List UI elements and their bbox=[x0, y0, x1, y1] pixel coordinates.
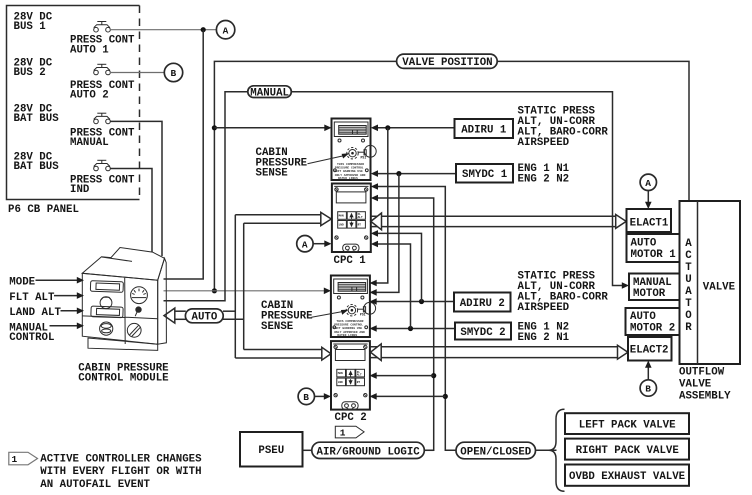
svg-text:A: A bbox=[685, 238, 692, 250]
svg-text:U: U bbox=[685, 274, 691, 286]
svg-text:BAT BUS: BAT BUS bbox=[14, 161, 60, 173]
svg-text:RIGHT PACK VALVE: RIGHT PACK VALVE bbox=[576, 445, 680, 457]
svg-text:MANUAL: MANUAL bbox=[250, 88, 289, 100]
svg-text:MODE: MODE bbox=[9, 276, 35, 288]
svg-text:AN AUTOFAIL EVENT: AN AUTOFAIL EVENT bbox=[40, 479, 150, 491]
svg-text:AIR/GROUND LOGIC: AIR/GROUND LOGIC bbox=[317, 446, 421, 458]
svg-text:ENG 2 N2: ENG 2 N2 bbox=[518, 173, 570, 185]
svg-text:ENG 2 N1: ENG 2 N1 bbox=[518, 332, 570, 344]
svg-text:ADIRU 2: ADIRU 2 bbox=[460, 298, 505, 310]
svg-text:MANUAL: MANUAL bbox=[70, 137, 109, 149]
svg-text:AUTO 1: AUTO 1 bbox=[70, 44, 109, 56]
svg-text:FLT ALT: FLT ALT bbox=[9, 292, 55, 304]
svg-text:AUTO 2: AUTO 2 bbox=[70, 90, 109, 102]
svg-text:A: A bbox=[302, 239, 308, 250]
svg-text:A: A bbox=[223, 25, 229, 36]
svg-text:LAND ALT: LAND ALT bbox=[9, 307, 61, 319]
svg-text:ADIRU 1: ADIRU 1 bbox=[461, 124, 506, 136]
svg-text:OUTFLOW: OUTFLOW bbox=[679, 367, 725, 379]
svg-text:CPC 1: CPC 1 bbox=[334, 255, 366, 267]
svg-text:O: O bbox=[685, 310, 692, 322]
svg-text:ACTIVE CONTROLLER CHANGES: ACTIVE CONTROLLER CHANGES bbox=[40, 454, 202, 466]
svg-text:C: C bbox=[685, 250, 692, 262]
svg-text:MANUAL: MANUAL bbox=[633, 277, 672, 289]
svg-text:IND: IND bbox=[70, 184, 90, 196]
svg-text:AUTO: AUTO bbox=[630, 311, 656, 323]
svg-text:B: B bbox=[303, 392, 309, 403]
svg-text:CONTROL MODULE: CONTROL MODULE bbox=[78, 373, 169, 385]
svg-text:VALVE POSITION: VALVE POSITION bbox=[402, 57, 492, 69]
svg-text:AIRSPEED: AIRSPEED bbox=[518, 137, 570, 149]
svg-text:CONTROL: CONTROL bbox=[9, 332, 54, 344]
svg-text:A: A bbox=[685, 286, 692, 298]
svg-text:CPC 2: CPC 2 bbox=[335, 412, 367, 424]
svg-text:B: B bbox=[171, 68, 177, 79]
svg-text:BUS 2: BUS 2 bbox=[14, 67, 46, 79]
svg-text:SMYDC 1: SMYDC 1 bbox=[462, 169, 507, 181]
svg-text:R: R bbox=[685, 322, 692, 334]
svg-text:A: A bbox=[645, 178, 651, 189]
svg-text:VALVE: VALVE bbox=[703, 281, 736, 293]
svg-text:OVBD EXHAUST VALVE: OVBD EXHAUST VALVE bbox=[569, 471, 686, 483]
svg-text:BAT BUS: BAT BUS bbox=[14, 113, 60, 125]
svg-text:BUS 1: BUS 1 bbox=[14, 21, 46, 33]
svg-text:OPEN/CLOSED: OPEN/CLOSED bbox=[460, 446, 532, 458]
svg-text:MOTOR 1: MOTOR 1 bbox=[631, 249, 676, 261]
svg-text:LEFT PACK VALVE: LEFT PACK VALVE bbox=[579, 420, 676, 432]
svg-text:T: T bbox=[685, 262, 692, 274]
svg-text:B: B bbox=[645, 384, 651, 395]
svg-text:AUTO: AUTO bbox=[631, 238, 657, 250]
svg-text:VALVE: VALVE bbox=[679, 379, 712, 391]
svg-text:MOTOR 2: MOTOR 2 bbox=[630, 323, 675, 335]
svg-text:ELACT2: ELACT2 bbox=[630, 345, 669, 357]
svg-text:1: 1 bbox=[12, 454, 18, 465]
svg-text:MOTOR: MOTOR bbox=[633, 288, 666, 300]
svg-text:WITH EVERY FLIGHT OR WITH: WITH EVERY FLIGHT OR WITH bbox=[40, 466, 201, 478]
svg-text:ASSEMBLY: ASSEMBLY bbox=[679, 391, 731, 403]
svg-text:PSEU: PSEU bbox=[258, 445, 284, 457]
svg-text:SMYDC 2: SMYDC 2 bbox=[460, 327, 505, 339]
svg-text:P6 CB PANEL: P6 CB PANEL bbox=[8, 204, 79, 216]
svg-text:SENSE: SENSE bbox=[256, 168, 289, 180]
svg-text:AUTO: AUTO bbox=[192, 312, 218, 324]
svg-text:ELACT1: ELACT1 bbox=[630, 217, 669, 229]
svg-text:T: T bbox=[685, 298, 692, 310]
svg-text:1: 1 bbox=[340, 428, 346, 439]
svg-text:SENSE: SENSE bbox=[261, 321, 294, 333]
svg-text:AIRSPEED: AIRSPEED bbox=[518, 302, 570, 314]
